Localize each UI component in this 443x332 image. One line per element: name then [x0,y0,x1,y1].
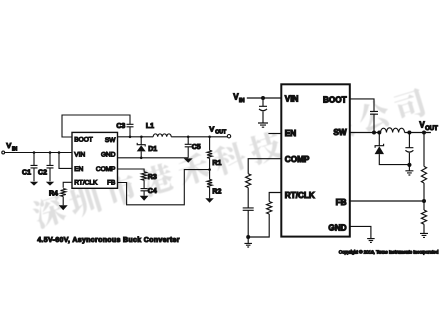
svg-text:IN: IN [239,98,245,104]
svg-text:EN: EN [74,166,83,173]
resistor feedback upper (right) [421,133,426,202]
resistor comp (right) [246,174,251,188]
svg-text:COMP: COMP [96,166,116,173]
wire VIN input (right) [247,97,281,99]
node junction diode-SW [377,131,381,135]
wire VIN rail [5,152,72,154]
node junction R1-VOUT [208,136,211,139]
svg-text:COMP: COMP [285,155,310,164]
node junction boot cap-SW [372,131,376,135]
node junction VIN cap [261,96,265,100]
capacitor boot (right) [370,111,378,132]
capacitor C3 [116,123,133,137]
inductor L1 [146,123,171,137]
resistor R1 [207,137,221,170]
node junction C3-SW [129,136,132,139]
wire FB feedback routing [118,170,210,205]
node VOUT label (right) [419,121,438,132]
node VOUT output terminal (left) [209,124,230,138]
svg-text:R1: R1 [212,160,221,167]
svg-text:R3: R3 [148,174,157,181]
ground (C1 arrow) [30,182,38,186]
svg-text:C3: C3 [116,123,125,130]
node junction C2-VIN [49,151,52,154]
capacitor C2 [38,153,53,182]
node VIN input terminal (left) [2,141,18,154]
wire FB (right) [350,200,424,202]
resistor R3 [142,172,157,181]
svg-text:R4: R4 [49,191,58,198]
ground (R4 arrow) [59,205,68,210]
ground (feedback divider) [420,233,428,237]
wire EN stub (right) [268,133,281,135]
node junction C5-SW [187,136,190,139]
svg-text:FB: FB [336,198,347,207]
ground (input cap) [258,123,268,127]
resistor R4 [49,189,66,206]
ground (GND/C5 arrow) [184,158,193,162]
resistor RT (right) [248,202,272,238]
svg-text:GND: GND [328,223,346,232]
resistor feedback lower (right) [421,201,426,233]
svg-text:4.5V-60V, Asyncronous Buck Con: 4.5V-60V, Asyncronous Buck Converter [37,237,180,244]
svg-text:IN: IN [12,146,17,152]
wire COMP to compensation network [248,159,281,174]
wire RT/CLK to R4 [63,182,72,188]
wire inductor to VOUT (right) [405,132,431,134]
svg-text:OUT: OUT [215,129,227,135]
op-amp U1 regulator IC (left schematic) [72,132,118,188]
ground (GND pin right) [367,239,375,243]
svg-text:L1: L1 [146,123,154,130]
node junction diode-output cap ground [407,163,411,167]
diode D1 [137,137,158,158]
wire BOOT to C3 top loop [62,115,130,137]
wire SW rail (right) [350,132,381,134]
svg-text:RT/CLK: RT/CLK [285,191,315,200]
svg-text:C2: C2 [38,169,47,176]
svg-text:C5: C5 [192,144,201,151]
node junction C1-VIN [33,151,36,154]
capacitor output (right) [405,133,413,171]
capacitor C4 [141,180,157,196]
capacitor C5 [185,137,201,158]
ground (C2 arrow) [46,182,54,186]
svg-text:FB: FB [107,180,115,187]
watermark text 深圳市港禾科技有限公司 (diagonal light gray) [30,87,427,230]
wire SW output rail [118,136,154,138]
svg-text:RT/CLK: RT/CLK [74,180,98,187]
ground (R2 arrow) [205,198,214,203]
wire GND pin to ground rail [118,157,189,159]
wire RT/CLK to resistor [269,193,281,202]
svg-text:SW: SW [105,137,116,144]
svg-text:GND: GND [101,152,116,159]
ground (comp network) [244,243,252,247]
node junction output cap-SW [407,131,411,135]
svg-text:VIN: VIN [285,94,299,103]
wire GND pin to ground (right) [350,226,371,238]
capacitor C1 [22,153,37,182]
svg-text:R2: R2 [212,188,221,195]
capacitor comp (right) [243,188,254,244]
node junction D1-GND [140,157,143,160]
wire EN tied to VIN rail [59,153,72,169]
svg-text:SW: SW [333,128,346,137]
wire L1 to VOUT [171,136,227,138]
svg-text:BOOT: BOOT [74,137,92,144]
node junction VOUT [422,131,426,135]
diode catch schottky (right) [375,133,410,165]
ground (output cap/diode) [405,171,413,175]
svg-text:OUT: OUT [425,126,438,132]
svg-text:VIN: VIN [74,151,85,158]
svg-text:C4: C4 [148,188,157,195]
capacitor input bypass (right) [259,98,267,123]
node junction comp ground [246,235,250,239]
svg-text:C1: C1 [22,169,31,176]
inductor output (right) [381,128,405,133]
node junction D1-SW [140,136,143,139]
node junction FB divider (right) [422,199,426,203]
node VIN input label (right) [233,93,244,104]
svg-text:D1: D1 [148,146,157,153]
node junction FB divider [208,168,211,171]
wire BOOT to boot capacitor [350,99,374,112]
ground (C4 arrow) [140,196,149,201]
svg-text:Copyright © 2016, Texas Instru: Copyright © 2016, Texas Instruments Inco… [339,249,439,255]
resistor R2 [207,170,221,199]
wire COMP to R3 [118,169,145,172]
svg-text:EN: EN [285,129,296,138]
op-amp U2 regulator IC (right schematic) [281,84,350,236]
svg-text:BOOT: BOOT [323,95,347,104]
node junction EN-VIN [58,151,61,154]
